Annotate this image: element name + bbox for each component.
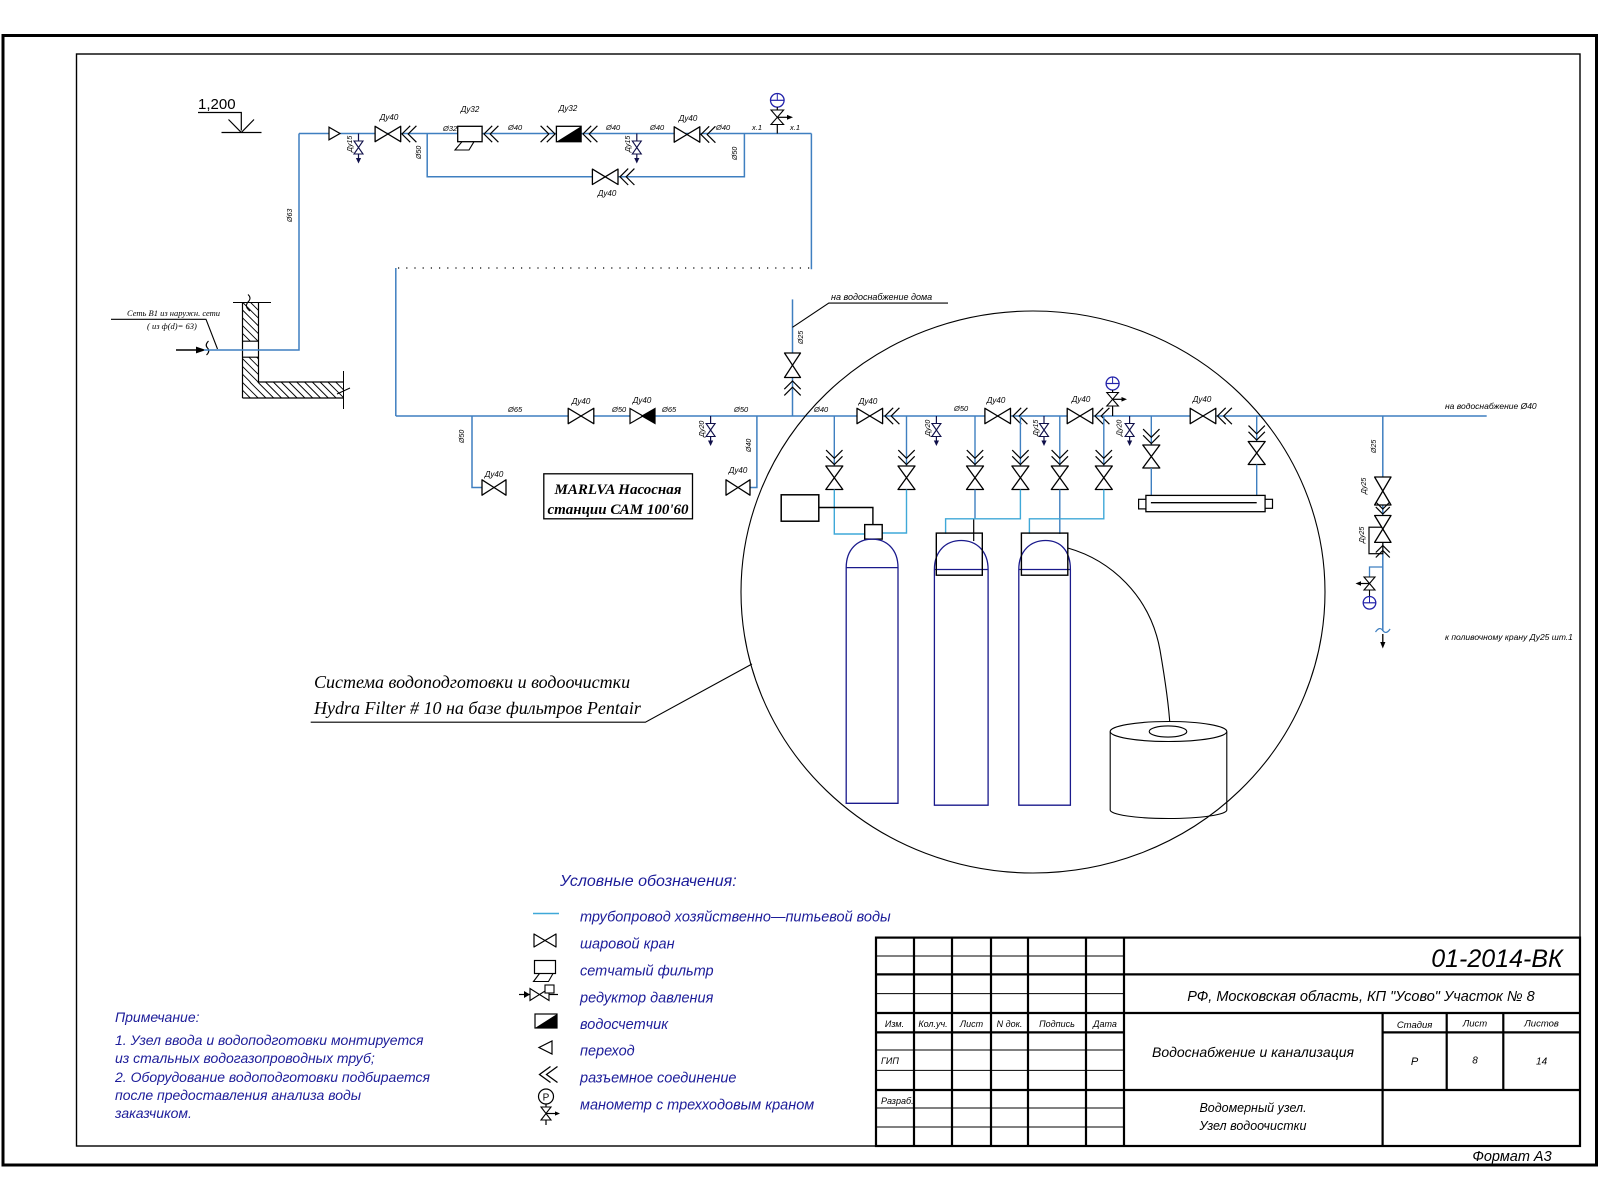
svg-text:трубопровод хозяйственно—питье: трубопровод хозяйственно—питьевой воды [580, 910, 891, 926]
stub with ball valve Ду40 (right drop to pump) [726, 416, 757, 495]
svg-text:ГИП: ГИП [881, 1056, 899, 1066]
svg-text:Водоснабжение и канализация: Водоснабжение и канализация [1152, 1044, 1354, 1060]
UV feed left: chevron + valve [1143, 416, 1160, 495]
svg-text:Примечание:: Примечание: [115, 1009, 200, 1025]
drain valve Ду20 [925, 416, 941, 446]
label Ø40 [813, 405, 829, 414]
svg-text:Ду20: Ду20 [925, 420, 932, 437]
system boundary circle [741, 311, 1325, 873]
svg-text:( из ф(d)= 63): ( из ф(d)= 63) [147, 321, 197, 331]
manometer with three-way valve (top) [771, 94, 794, 134]
svg-text:Формат А3: Формат А3 [1472, 1149, 1551, 1165]
svg-text:Ø50: Ø50 [732, 147, 739, 161]
legend text: трубопровод хозяйств [580, 910, 891, 926]
drop d3 connection into filter 2 [974, 490, 975, 542]
filter drop d3: chevron + valve [967, 416, 984, 490]
svg-text:Ду15: Ду15 [1033, 420, 1040, 437]
drop d6 connection to filter 3 cap [1029, 490, 1103, 534]
svg-text:14: 14 [1536, 1057, 1548, 1068]
svg-text:Ду15: Ду15 [347, 136, 354, 153]
svg-text:манометр с трехходовым краном: манометр с трехходовым краном [580, 1098, 814, 1114]
svg-text:Стадия: Стадия [1397, 1020, 1433, 1031]
legend: manometer with 3-way valve [539, 1089, 561, 1125]
drain valve Ду20 (right of manometer) [1117, 416, 1135, 446]
legend: reducer triangle [539, 1041, 552, 1054]
svg-text:Водомерный узел.: Водомерный узел. [1199, 1101, 1306, 1115]
svg-text:MARLVA Насосная: MARLVA Насосная [554, 482, 682, 498]
legend text: манометр с трехходов [580, 1098, 814, 1114]
svg-text:N док.: N док. [997, 1019, 1023, 1029]
svg-text:Ду40: Ду40 [571, 397, 591, 406]
legend text: водосчетчик [580, 1017, 669, 1033]
ball valve Ду40 (lower main, first) [568, 397, 594, 424]
entry label Сеть В1 [111, 308, 220, 349]
svg-text:1. Узел ввода и водоподгот: 1. Узел ввода и водоподготовки монтирует… [115, 1032, 424, 1048]
svg-text:разъемное соединение: разъемное соединение [579, 1071, 737, 1087]
svg-text:на водоснабжение Ø40: на водоснабжение Ø40 [1445, 401, 1537, 411]
ball valve Ду40 (top, first) [375, 113, 416, 142]
svg-text:Ø63: Ø63 [287, 209, 294, 223]
svg-text:водосчетчик: водосчетчик [580, 1017, 669, 1033]
filter drop d4: chevron + valve [1012, 416, 1029, 490]
svg-text:Ø40: Ø40 [715, 123, 731, 132]
svg-text:Дата: Дата [1092, 1019, 1117, 1029]
label Ø40 [507, 123, 523, 132]
notes (Примечание) [114, 1009, 430, 1121]
label Ø65 [507, 405, 523, 414]
svg-text:Hydra Filter # 10 на базе фил: Hydra Filter # 10 на базе фильтров Penta… [313, 698, 642, 718]
svg-text:Ø50: Ø50 [611, 405, 627, 414]
svg-text:Ø32: Ø32 [442, 124, 458, 133]
svg-text:1,200: 1,200 [198, 96, 236, 113]
label Ø65 [661, 405, 677, 414]
svg-text:Р: Р [1411, 1056, 1419, 1068]
filter drop d2: chevron + valve [898, 416, 915, 490]
svg-text:РФ, Московская область, КП "Ус: РФ, Московская область, КП "Усово" Участ… [1187, 989, 1534, 1005]
label on entry riser [287, 209, 294, 223]
UV feed right: chevron + valve [1248, 416, 1265, 495]
svg-text:на водоснабжение дома: на водоснабжение дома [831, 292, 932, 302]
drain valve Ду20 on lower main [699, 416, 715, 446]
drain valve on top pipe (Ду15) [347, 134, 363, 164]
brine hose to salt tank [1068, 548, 1170, 726]
svg-text:8: 8 [1472, 1056, 1478, 1067]
svg-text:Ø50: Ø50 [733, 405, 749, 414]
svg-text:после предоставления анализа: после предоставления анализа воды [115, 1087, 362, 1103]
label Ø40 [605, 123, 621, 132]
ball valve Ду40 (top, second) [674, 114, 715, 143]
svg-text:шаровой кран: шаровой кран [580, 937, 675, 953]
labels x.1 around manometer [732, 123, 800, 161]
разъемное соединение below reducer [1376, 546, 1390, 558]
svg-text:Ду40: Ду40 [1192, 395, 1212, 404]
svg-text:Ду40: Ду40 [1071, 395, 1091, 404]
svg-text:Ø40: Ø40 [746, 439, 753, 453]
stub with ball valve Ду40 (left drop) [472, 416, 506, 495]
svg-text:Лист: Лист [1462, 1019, 1488, 1030]
label Ø50 [953, 404, 969, 413]
lower main pipe [396, 415, 1487, 417]
svg-text:станции САМ 100'60: станции САМ 100'60 [547, 502, 689, 518]
svg-text:переход: переход [580, 1044, 635, 1060]
svg-text:к поливочному крану Ду25 шт.1: к поливочному крану Ду25 шт.1 [1445, 632, 1573, 642]
check valve (обратный клапан) [630, 396, 655, 424]
legend text: разъемное соединение [579, 1071, 737, 1087]
svg-text:Ду15: Ду15 [625, 136, 632, 153]
svg-text:Ду20: Ду20 [699, 421, 706, 438]
svg-text:Лист: Лист [959, 1019, 984, 1029]
svg-text:Листов: Листов [1523, 1019, 1559, 1030]
ball valve Ду40 (before UV) [1190, 395, 1232, 424]
svg-text:Сеть В1 из наружн. сети: Сеть В1 из наружн. сети [127, 308, 220, 318]
filter drop d5: chevron + valve [1051, 416, 1068, 490]
legend text: переход [580, 1044, 635, 1060]
ball valve Ду40 (third) [1067, 395, 1109, 424]
label: к поливочному крану [1445, 632, 1573, 642]
rotated label Ø50 at left riser [459, 430, 466, 444]
filter 1 cap [865, 525, 883, 540]
filter 3 cap (head) [1021, 533, 1067, 575]
svg-text:Ду40: Ду40 [728, 466, 748, 475]
legend: water meter [535, 1014, 557, 1028]
legend: ball valve [534, 934, 556, 947]
legend text: шаровой кран [580, 937, 675, 953]
bypass ball valve Ду40 [592, 169, 634, 198]
filter 2 cap (head) [936, 533, 982, 575]
bypass loop [427, 134, 744, 177]
svg-text:Ø65: Ø65 [507, 405, 523, 414]
dotted line (room boundary) [398, 267, 811, 269]
legend text: редуктор давления [579, 991, 714, 1007]
ball valve Ду40 (before filters) [857, 397, 899, 424]
legend: strainer [534, 961, 556, 982]
svg-text:Ду25: Ду25 [1361, 478, 1368, 495]
manometer with three-way valve (middle) [1106, 377, 1127, 416]
pressure reducer Ду25 [1359, 516, 1391, 554]
svg-text:Ду40: Ду40 [597, 189, 617, 198]
svg-text:Ду40: Ду40 [858, 397, 878, 406]
title block texts [881, 945, 1564, 1165]
svg-text:Условные обозначения:: Условные обозначения: [559, 873, 737, 890]
controller box [781, 495, 873, 525]
svg-text:Ø25: Ø25 [1371, 440, 1378, 454]
entry pipe [204, 134, 299, 351]
legend: pressure reducer [519, 985, 558, 1001]
svg-text:2. Оборудование водоподготов: 2. Оборудование водоподготовки подбирает… [114, 1069, 430, 1085]
label Ø50 [611, 405, 627, 414]
svg-text:Ду40: Ду40 [379, 113, 399, 122]
labels near bypass corner [416, 124, 458, 160]
branch valve Ду25 [1361, 477, 1391, 505]
svg-text:Ø50: Ø50 [459, 430, 466, 444]
flow arrow at entry [176, 341, 209, 355]
reducer (переход) on top pipe [329, 127, 340, 140]
svg-text:Ø50: Ø50 [416, 146, 423, 160]
svg-text:редуктор давления: редуктор давления [579, 991, 714, 1007]
svg-text:Ø40: Ø40 [813, 405, 829, 414]
UV sterilizer [1139, 495, 1273, 511]
svg-text:Подпись: Подпись [1039, 1019, 1075, 1029]
legend text: сетчатый фильтр [580, 964, 714, 980]
svg-text:Р: Р [543, 1093, 550, 1104]
drain valve Ду15 [1033, 416, 1049, 446]
svg-text:Изм.: Изм. [885, 1019, 904, 1029]
svg-text:Узел водоочистки: Узел водоочистки [1199, 1119, 1307, 1133]
legend title [559, 873, 737, 890]
legend: pipe sample [533, 913, 559, 915]
break + arrow at branch end [1376, 629, 1391, 649]
svg-text:01-2014-ВК: 01-2014-ВК [1431, 945, 1564, 973]
left riser to lower main [395, 268, 397, 416]
building wall (hatched) [233, 295, 350, 410]
system label Hydra Filter [311, 664, 752, 722]
label Ø40 [649, 123, 665, 132]
ball valve Ду40 (between filters) [985, 396, 1028, 424]
filter tank 1 [846, 539, 898, 803]
svg-text:Ø65: Ø65 [661, 405, 677, 414]
manometer with three-way valve (branch) [1356, 567, 1383, 609]
svg-text:Ду40: Ду40 [678, 114, 698, 123]
svg-text:заказчиком.: заказчиком. [114, 1105, 192, 1121]
svg-text:Ду25: Ду25 [1359, 527, 1366, 544]
svg-text:Ду32: Ду32 [558, 104, 578, 113]
strainer (сетчатый фильтр) [455, 105, 498, 150]
drop d4 connection to filter 2 cap [946, 490, 1021, 534]
label Ø40 [715, 123, 731, 132]
svg-text:х.1: х.1 [751, 123, 762, 132]
svg-text:Ø40: Ø40 [605, 123, 621, 132]
svg-text:Разраб.: Разраб. [881, 1096, 914, 1106]
разъемное соединение on branch [1376, 502, 1390, 514]
svg-text:Ду40: Ду40 [986, 396, 1006, 405]
svg-text:Ду32: Ду32 [460, 105, 480, 114]
svg-text:Ø40: Ø40 [507, 123, 523, 132]
label Ø50 [733, 405, 749, 414]
svg-text:Ду40: Ду40 [484, 470, 504, 479]
svg-text:из стальных водогазопроводны: из стальных водогазопроводных труб; [115, 1050, 375, 1066]
svg-text:Ø40: Ø40 [649, 123, 665, 132]
filter tank 2 [934, 541, 988, 806]
drop d2 connection to filter 1 cap [882, 490, 906, 534]
title block [876, 938, 1580, 1146]
right branch riser [1371, 416, 1383, 631]
top-right riser [810, 134, 812, 270]
drop d1 connection to filter 1 cap [834, 490, 864, 535]
svg-text:сетчатый фильтр: сетчатый фильтр [580, 964, 714, 980]
MARLVA pump station label box [544, 474, 693, 519]
svg-text:Ду40: Ду40 [632, 396, 652, 405]
legend: detachable joint [540, 1067, 558, 1083]
filter drop d6: chevron + valve [1095, 416, 1112, 490]
salt tank (cylinder) [1110, 722, 1227, 819]
svg-text:Кол.уч.: Кол.уч. [918, 1019, 947, 1029]
top pipe run [299, 133, 811, 135]
svg-text:Ø50: Ø50 [953, 404, 969, 413]
svg-text:х.1: х.1 [789, 123, 800, 132]
water meter Ду32 (водосчетчик) [541, 104, 598, 142]
drain valve on top pipe (Ду15) second [625, 134, 641, 164]
riser to house supply with valve [784, 299, 805, 416]
label: на водоснабжение Ø40 [1445, 401, 1537, 411]
drop d5 connection into filter 3 [1059, 490, 1061, 535]
rotated label at pump riser [746, 439, 753, 453]
leader: на водоснабжение дома [793, 292, 949, 327]
svg-text:Ø25: Ø25 [798, 331, 805, 345]
filter tank 3 [1019, 541, 1071, 806]
elevation mark 1,200 [198, 96, 262, 133]
svg-text:Ду20: Ду20 [1117, 420, 1124, 437]
filter drop d1: chevron + valve [826, 416, 843, 490]
svg-text:Система водоподготовки и водоо: Система водоподготовки и водоочистки [314, 672, 630, 692]
